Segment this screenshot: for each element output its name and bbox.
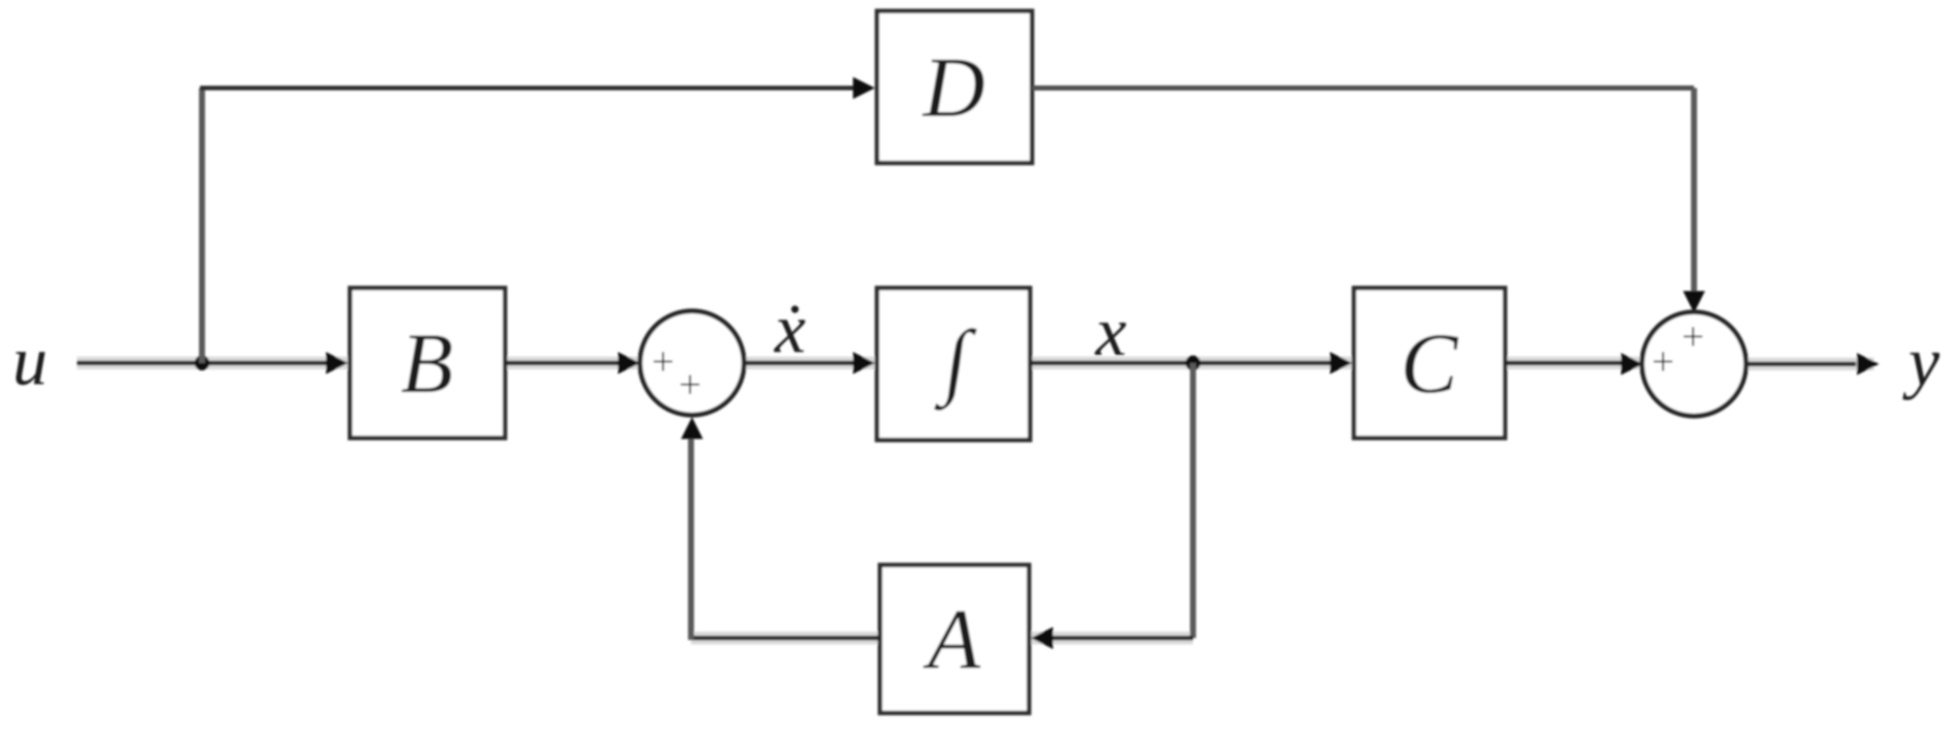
arrow into B xyxy=(326,352,348,374)
wire: input u to junction xyxy=(77,361,202,366)
halo under feedback wire xyxy=(691,632,1193,645)
wire: D to right corner xyxy=(1032,86,1694,91)
svg-text:x: x xyxy=(1094,294,1126,371)
wire: C to sum2 xyxy=(1505,361,1625,366)
arrow into sum2 xyxy=(1621,353,1643,375)
arrow into sum1 xyxy=(618,352,640,374)
block C xyxy=(1354,288,1505,438)
wire: corner up to sum1 bottom xyxy=(688,432,694,640)
wire: sum1 to integrator xyxy=(742,361,858,366)
arrow into integrator xyxy=(853,352,875,374)
block D xyxy=(877,11,1032,163)
svg-text:+: + xyxy=(652,339,675,384)
svg-text:+: + xyxy=(1652,339,1675,384)
svg-text:u: u xyxy=(13,323,48,400)
arrow into sum2 top xyxy=(1683,291,1705,313)
node: input junction dot xyxy=(195,356,210,371)
wire: A left to corner xyxy=(691,636,880,641)
halo under output wire xyxy=(1745,358,1874,371)
arrow into C xyxy=(1330,352,1352,374)
wire: x node down xyxy=(1190,363,1196,638)
wire: right corner down to sum2 xyxy=(1691,88,1697,296)
svg-text:C: C xyxy=(1400,315,1459,411)
arrow output xyxy=(1857,353,1879,375)
svg-text:+: + xyxy=(1682,314,1705,359)
wire: sum2 to output xyxy=(1745,362,1856,367)
svg-text:A: A xyxy=(923,591,981,687)
block integrator xyxy=(877,288,1030,440)
node: x junction dot xyxy=(1186,356,1201,371)
wire: junction to B xyxy=(202,361,330,366)
block B xyxy=(350,288,505,438)
svg-text:ẋ: ẋ xyxy=(773,291,805,368)
wire: top corner to D xyxy=(200,86,858,91)
svg-text:+: + xyxy=(679,362,702,407)
arrow into D xyxy=(853,77,875,99)
arrow into A (pointing left) xyxy=(1031,627,1053,649)
arrow into sum1 bottom xyxy=(681,417,703,439)
svg-text:B: B xyxy=(401,315,454,411)
svg-text:y: y xyxy=(1902,324,1940,401)
halo under main horizontal wire xyxy=(77,357,1643,370)
block A xyxy=(880,565,1029,713)
summing junction S2 xyxy=(1642,312,1746,416)
wire: integrator to C xyxy=(1030,361,1336,366)
wire: junction up to D level xyxy=(199,88,205,363)
wire: down corner to A right xyxy=(1048,636,1193,641)
wire: B to sum1 xyxy=(505,361,622,366)
svg-text:D: D xyxy=(922,39,985,135)
summing junction S1 xyxy=(640,311,744,415)
